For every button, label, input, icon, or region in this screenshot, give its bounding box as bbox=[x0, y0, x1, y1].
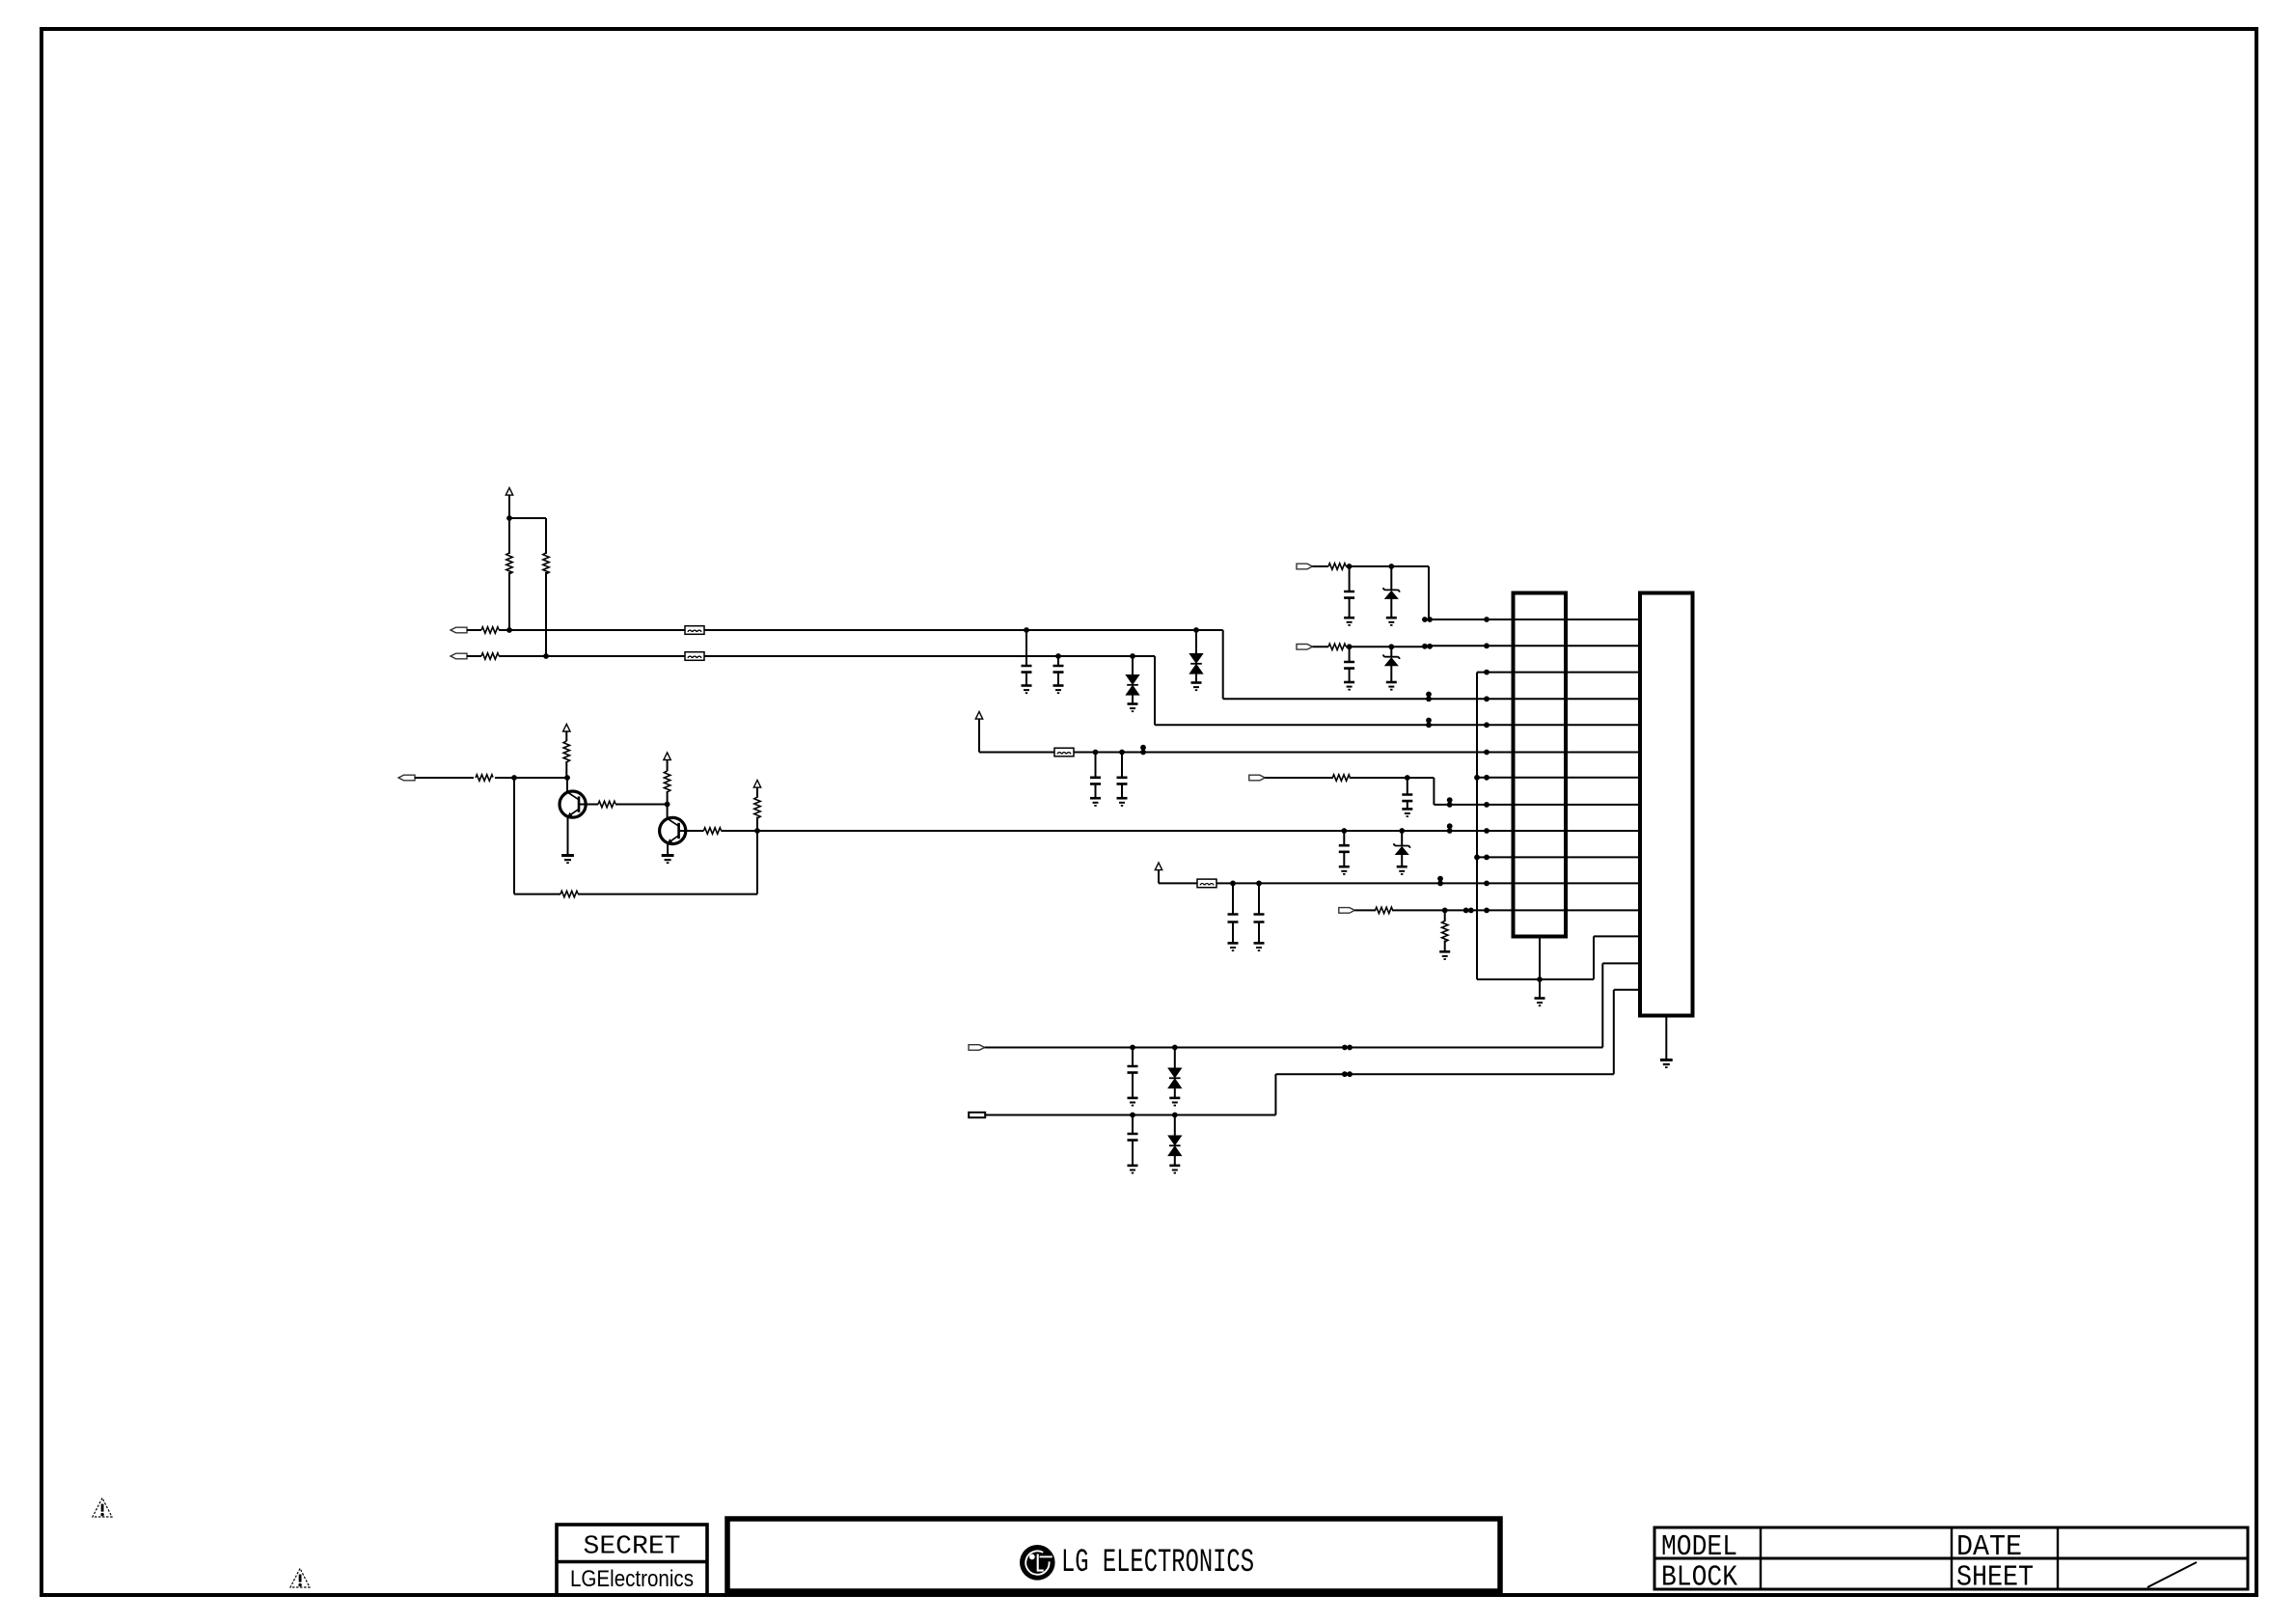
resistor R13 bbox=[1328, 644, 1346, 649]
wire C6 to gnd bbox=[1349, 598, 1351, 618]
junction C7 on net2 bbox=[1347, 644, 1353, 649]
junction row4 pin bbox=[1484, 696, 1490, 701]
junction feedback node A bbox=[511, 775, 517, 781]
ferrite bead L4 bbox=[1197, 879, 1216, 888]
svg-text:SHEET: SHEET bbox=[1956, 1561, 2034, 1595]
capacitor C9 bbox=[1228, 915, 1239, 922]
zener diode Z1 bbox=[1394, 843, 1410, 854]
wire C10 stem bbox=[1258, 883, 1260, 914]
resistor R15 bbox=[1376, 907, 1393, 913]
wire left block to GND bbox=[1539, 937, 1541, 980]
wire D1 to gnd bbox=[1132, 695, 1134, 703]
power symbol VCC arrow A6 bbox=[1155, 863, 1162, 870]
node junction top of R1/R2 bbox=[506, 515, 512, 521]
svg-text:LGElectronics: LGElectronics bbox=[570, 1566, 694, 1592]
wire C1 to gnd bbox=[1025, 673, 1027, 685]
junction C12 on railB bbox=[1130, 1113, 1135, 1118]
title table bbox=[1654, 1527, 2248, 1589]
connector J3 input bbox=[398, 775, 415, 781]
ground C8 bbox=[1402, 809, 1412, 816]
junction row6 pin bbox=[1484, 750, 1490, 756]
wire A2 to R7 bbox=[565, 731, 567, 741]
resistor R12 bbox=[1328, 564, 1346, 569]
ground C4 bbox=[1090, 798, 1101, 806]
diode D2 TVS bbox=[1189, 654, 1202, 674]
wire C1 stem bbox=[1025, 630, 1027, 666]
wire row 3 into connector blocks bbox=[1477, 672, 1640, 674]
connector J9 input bbox=[969, 1113, 985, 1117]
capacitor C1 bbox=[1022, 666, 1032, 673]
wire railA into right block bbox=[1602, 962, 1640, 964]
junction row1 pin bbox=[1484, 617, 1490, 622]
wire R16 stem bbox=[1444, 910, 1446, 922]
wire row 7 into connector blocks bbox=[1477, 777, 1640, 779]
power symbol VCC arrow A4 bbox=[753, 781, 760, 788]
wire Z2 stem bbox=[1390, 566, 1392, 590]
connector J1 input bbox=[451, 627, 467, 633]
ground Z2 bbox=[1386, 618, 1397, 625]
wire row 9 long net bbox=[757, 830, 1640, 832]
connector J2 input bbox=[451, 653, 467, 659]
wire C3 to gnd bbox=[1343, 852, 1345, 867]
wire D2 stem bbox=[1195, 630, 1197, 654]
wire D2 to gnd bbox=[1195, 674, 1197, 682]
wire row11 seg1 bbox=[1159, 882, 1198, 884]
wire rail1 seg2 bbox=[704, 629, 1223, 631]
wire Z2 to gnd bbox=[1390, 598, 1392, 617]
junction R11 node bbox=[754, 828, 760, 834]
wire GND step up bbox=[1593, 936, 1595, 979]
wire row 4 into connector blocks bbox=[1429, 698, 1640, 700]
junction R16 on row12 bbox=[1442, 908, 1448, 914]
wire net2 seg bbox=[1346, 646, 1425, 647]
wire C5 stem bbox=[1121, 753, 1123, 778]
wire row6 seg1 bbox=[979, 752, 1054, 754]
wire J7 to R15 bbox=[1354, 909, 1376, 911]
wire rail2 to row5 bbox=[1155, 724, 1429, 726]
wire Q1 emitter bbox=[567, 817, 569, 855]
wire C6 stem bbox=[1349, 566, 1351, 591]
wire C8 to gnd bbox=[1407, 801, 1408, 809]
wire feedback up bbox=[756, 831, 758, 894]
ferrite bead L3 bbox=[1054, 748, 1074, 756]
wire rail B seg2 bbox=[1275, 1073, 1613, 1075]
wire R2 lower stem bbox=[545, 572, 547, 656]
resistor R14 bbox=[1332, 775, 1350, 781]
wire D1 stem bbox=[1132, 656, 1134, 675]
company title box bbox=[727, 1519, 1500, 1591]
junction D4 on railB bbox=[1172, 1113, 1178, 1118]
resistor R16 bbox=[1442, 921, 1448, 942]
warning triangle W1 bbox=[93, 1499, 112, 1518]
ground C10 bbox=[1254, 943, 1265, 950]
junction row2 pin bbox=[1484, 643, 1490, 648]
wire J3 to R5 bbox=[415, 777, 474, 779]
ground C5 bbox=[1117, 798, 1128, 806]
wire R10 to node bbox=[721, 830, 757, 832]
wire net8 seg bbox=[1350, 777, 1435, 779]
wire rail2 step down bbox=[1154, 656, 1156, 725]
wire C7 to gnd bbox=[1349, 669, 1351, 682]
wire C2 stem bbox=[1057, 656, 1059, 666]
wire A6 down bbox=[1158, 870, 1160, 884]
wire row 8 into connector blocks bbox=[1434, 804, 1640, 806]
junction Z2 on net1 bbox=[1388, 564, 1394, 569]
wire feedback down bbox=[513, 778, 515, 894]
ground Z1 bbox=[1397, 867, 1408, 874]
wire C2 to gnd bbox=[1057, 673, 1059, 685]
wire Z3 stem bbox=[1390, 646, 1392, 656]
wire net1 top bbox=[1346, 565, 1429, 567]
junction pair row6 bbox=[1140, 745, 1146, 756]
wire Z1 to gnd bbox=[1401, 855, 1403, 867]
zener diode Z3 bbox=[1383, 654, 1400, 665]
wire R8 to Q2 node bbox=[615, 804, 668, 806]
wire R11 to node bbox=[756, 817, 758, 831]
wire input node bbox=[495, 777, 567, 779]
wire railB step up1 bbox=[1274, 1074, 1276, 1114]
junction Z1 on row9 bbox=[1399, 828, 1405, 834]
junction Q2 collector node bbox=[665, 802, 670, 808]
wire row 10 into connector blocks bbox=[1477, 856, 1640, 858]
wire R1 upper stem bbox=[508, 518, 510, 554]
ground Z3 bbox=[1386, 682, 1397, 690]
wire R2 upper stem bbox=[545, 518, 547, 554]
wire rail B seg1 bbox=[985, 1114, 1275, 1116]
wire row 6 into connector blocks bbox=[1074, 752, 1640, 754]
connector block P2 (right tall rectangle) bbox=[1640, 593, 1693, 1016]
wire net1 down to row1 bbox=[1428, 566, 1430, 619]
resistor R3 bbox=[481, 627, 499, 633]
ground C2 bbox=[1053, 686, 1064, 694]
secret box divider bbox=[557, 1560, 707, 1564]
junction pair row2 bbox=[1422, 644, 1433, 649]
wire railB into right block bbox=[1614, 989, 1640, 991]
wire C12 stem bbox=[1132, 1115, 1134, 1135]
wire GND bus bottom bbox=[1477, 978, 1594, 980]
wire row 5 into connector blocks bbox=[1429, 724, 1640, 726]
junction pair row1 bbox=[1422, 617, 1433, 622]
junction GND node bbox=[1537, 977, 1543, 982]
warning triangle W2 bbox=[290, 1569, 310, 1588]
capacitor C6 bbox=[1344, 591, 1354, 598]
power symbol VCC arrow A3 bbox=[664, 753, 670, 760]
wire J5 to R13 bbox=[1313, 646, 1329, 647]
junction C6 on net1 bbox=[1347, 564, 1353, 569]
wire C10 to gnd bbox=[1258, 922, 1260, 944]
wire J4 to R12 bbox=[1313, 565, 1329, 567]
zener diode Z2 bbox=[1383, 588, 1400, 598]
wire C4 to gnd bbox=[1095, 784, 1097, 797]
svg-text:LG ELECTRONICS: LG ELECTRONICS bbox=[1061, 1545, 1254, 1582]
ground D4 bbox=[1169, 1166, 1180, 1173]
sheet slash bbox=[2147, 1562, 2197, 1587]
ground C7 bbox=[1344, 682, 1354, 690]
wire R16 to gnd bbox=[1444, 941, 1446, 951]
wire D4 stem bbox=[1174, 1115, 1176, 1137]
junction C8 on net8 bbox=[1405, 775, 1410, 781]
ferrite bead L2 bbox=[685, 652, 704, 661]
diode D1 TVS bbox=[1126, 675, 1138, 696]
wire net8 step down bbox=[1433, 778, 1435, 805]
capacitor C8 bbox=[1402, 795, 1412, 802]
resistor R7 bbox=[563, 741, 569, 762]
ground C3 bbox=[1339, 867, 1350, 874]
wire row 12 into connector blocks bbox=[1392, 909, 1640, 911]
ground Q2 emitter bbox=[662, 856, 674, 864]
junction row7 pin bbox=[1484, 775, 1490, 781]
ground D3 bbox=[1169, 1098, 1180, 1106]
wire Q2 collector stem bbox=[667, 805, 669, 818]
junction Q1 collector node bbox=[564, 775, 570, 781]
wire C8 stem bbox=[1407, 778, 1408, 795]
wire R9 to node bbox=[667, 791, 669, 805]
resistor R1 bbox=[506, 553, 512, 574]
wire C9 to gnd bbox=[1232, 922, 1234, 944]
ground C11 bbox=[1128, 1098, 1138, 1106]
wire C3 stem bbox=[1343, 831, 1345, 845]
resistor R4 bbox=[481, 653, 499, 659]
junction GND bus row7 bbox=[1474, 775, 1480, 781]
resistor R6 feedback bbox=[560, 891, 578, 896]
ground C9 bbox=[1228, 943, 1239, 950]
svg-text:SECRET: SECRET bbox=[584, 1533, 681, 1562]
wire R1 lower stem bbox=[508, 572, 510, 630]
wire Q2 base lead bbox=[679, 830, 704, 832]
junction pair railA bbox=[1342, 1045, 1353, 1051]
wire Z1 stem bbox=[1401, 831, 1403, 845]
junction pair row9 bbox=[1447, 823, 1453, 834]
capacitor C2 bbox=[1053, 666, 1064, 673]
ground C12 bbox=[1128, 1166, 1138, 1173]
wire GND into right block bbox=[1594, 935, 1640, 937]
svg-text:MODEL: MODEL bbox=[1661, 1530, 1737, 1564]
wire C12 to gnd bbox=[1132, 1141, 1134, 1166]
LG logo bbox=[1020, 1545, 1055, 1581]
wire R7 to Q1 node bbox=[565, 761, 567, 778]
power symbol VCC arrow A1 bbox=[506, 488, 512, 496]
wire A5 down bbox=[978, 719, 980, 752]
wire row 11 into connector blocks bbox=[1216, 882, 1640, 884]
junction D3 on railA bbox=[1172, 1045, 1178, 1051]
junction D1 on rail2 bbox=[1130, 653, 1135, 659]
ground C6 bbox=[1344, 618, 1354, 625]
wire D3 stem bbox=[1174, 1048, 1176, 1069]
junction Z3 on net2 bbox=[1388, 644, 1394, 649]
ground right block bbox=[1660, 1060, 1673, 1068]
svg-text:BLOCK: BLOCK bbox=[1661, 1561, 1737, 1595]
capacitor C7 bbox=[1344, 662, 1354, 669]
junction row3 pin bbox=[1484, 670, 1490, 675]
wire A4 to R11 bbox=[756, 787, 758, 798]
ground main GND bbox=[1535, 999, 1545, 1006]
ground C1 bbox=[1022, 686, 1032, 694]
power symbol VCC arrow A5 bbox=[975, 712, 982, 720]
wire right block gnd stem bbox=[1665, 1016, 1667, 1060]
wire D4 to gnd bbox=[1174, 1156, 1176, 1166]
resistor R8 bbox=[598, 801, 615, 807]
svg-text:DATE: DATE bbox=[1956, 1530, 2022, 1564]
wire rail1 seg1 bbox=[499, 629, 685, 631]
capacitor C3 bbox=[1339, 845, 1350, 852]
junction C10 on row11 bbox=[1256, 881, 1262, 887]
capacitor C5 bbox=[1117, 778, 1128, 784]
wire C9 stem bbox=[1232, 883, 1234, 914]
wire feedback bottom seg1 bbox=[514, 894, 560, 895]
ground D1 bbox=[1128, 704, 1138, 712]
wire C5 to gnd bbox=[1121, 784, 1123, 797]
diode D4 TVS bbox=[1168, 1136, 1181, 1156]
wire R1-R2 top link bbox=[509, 517, 546, 519]
junction row5 pin bbox=[1484, 722, 1490, 728]
junction R1 on rail1 bbox=[506, 627, 512, 633]
junction C9 on row11 bbox=[1230, 881, 1236, 887]
junction pair row12 bbox=[1463, 908, 1474, 914]
wire railB step up2 bbox=[1613, 990, 1615, 1074]
junction C1 on rail1 bbox=[1024, 627, 1029, 633]
resistor R11 bbox=[754, 797, 760, 818]
wire C11 stem bbox=[1132, 1048, 1134, 1067]
secret box bbox=[557, 1525, 707, 1595]
wire rail1 to row4 bbox=[1223, 698, 1429, 700]
wire C7 stem bbox=[1349, 646, 1351, 662]
junction row9 pin bbox=[1484, 828, 1490, 834]
connector J5 input bbox=[1297, 645, 1313, 650]
wire railA step up bbox=[1601, 963, 1603, 1047]
junction row11 pin bbox=[1484, 881, 1490, 887]
ferrite bead L1 bbox=[685, 626, 704, 635]
junction pair rail1/row4 bbox=[1426, 692, 1432, 702]
wire Z3 to gnd bbox=[1390, 666, 1392, 682]
wire row 2 into connector blocks bbox=[1425, 645, 1640, 646]
junction C2 on rail2 bbox=[1055, 653, 1061, 659]
connector J4 input bbox=[1297, 564, 1313, 569]
wire C4 stem bbox=[1095, 753, 1097, 778]
wire J1 to R3 bbox=[467, 629, 481, 631]
junction pair row8 bbox=[1447, 797, 1453, 808]
ground D2 bbox=[1191, 683, 1202, 691]
wire GND bus vertical bbox=[1476, 673, 1478, 979]
junction row10 pin bbox=[1484, 855, 1490, 861]
capacitor C10 bbox=[1254, 915, 1265, 922]
junction C3 on row9 bbox=[1341, 828, 1347, 834]
wire GND stem bbox=[1539, 979, 1541, 998]
wire rail A bbox=[985, 1047, 1603, 1049]
wire rail1 step down bbox=[1222, 630, 1224, 699]
wire A3 to R9 bbox=[667, 760, 669, 772]
junction C11 on railA bbox=[1130, 1045, 1135, 1051]
resistor R9 bbox=[664, 771, 670, 792]
power symbol VCC arrow A2 bbox=[563, 724, 570, 731]
transistor Q2 bbox=[660, 817, 686, 843]
wire Q1 base lead bbox=[579, 804, 598, 806]
resistor R5 bbox=[476, 775, 493, 781]
wire rail2 seg1 bbox=[499, 655, 1155, 657]
junction row8 pin bbox=[1484, 802, 1490, 808]
transistor Q1 bbox=[560, 791, 586, 817]
capacitor C12 bbox=[1128, 1134, 1138, 1141]
junction pair railB bbox=[1342, 1071, 1353, 1077]
junction R2 on rail2 bbox=[543, 653, 549, 659]
junction pair rail2/row5 bbox=[1426, 718, 1432, 729]
wire feedback bottom seg2 bbox=[578, 894, 757, 895]
wire Q1 collector stem bbox=[566, 778, 568, 791]
wire C11 to gnd bbox=[1132, 1073, 1134, 1098]
wire A1 stem bbox=[508, 495, 510, 518]
junction row12 pin bbox=[1484, 908, 1490, 914]
junction pair row11 bbox=[1437, 876, 1443, 887]
junction C5 on row6 bbox=[1119, 750, 1125, 756]
wire row 1 into connector blocks bbox=[1425, 619, 1640, 620]
wire D3 to gnd bbox=[1174, 1088, 1176, 1098]
wire Q2 emitter bbox=[667, 844, 669, 855]
diode D3 TVS bbox=[1168, 1068, 1181, 1088]
connector J8 input bbox=[969, 1045, 985, 1051]
ground R16 bbox=[1439, 951, 1450, 959]
resistor R10 bbox=[703, 828, 721, 834]
junction C4 on row6 bbox=[1093, 750, 1099, 756]
connector J6 input bbox=[1249, 775, 1266, 781]
ground Q1 emitter bbox=[561, 856, 574, 864]
resistor R2 bbox=[543, 553, 549, 574]
connector block P1 (left tall rectangle) bbox=[1514, 593, 1567, 937]
wire J6 to R14 bbox=[1265, 777, 1333, 779]
capacitor C11 bbox=[1128, 1066, 1138, 1073]
wire J2 to R4 bbox=[467, 655, 481, 657]
junction D2 on rail1 bbox=[1193, 627, 1199, 633]
junction GND bus row10 bbox=[1474, 855, 1480, 861]
connector J7 input bbox=[1339, 908, 1355, 914]
capacitor C4 bbox=[1090, 778, 1101, 784]
